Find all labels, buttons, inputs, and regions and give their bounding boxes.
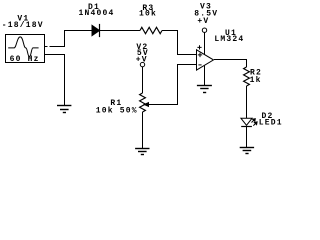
potentiometer R1 bbox=[140, 93, 149, 112]
wire V1 bottom to ground bbox=[45, 55, 65, 106]
wire D2 to ground bbox=[246, 127, 248, 148]
label D2 bbox=[262, 112, 274, 121]
label R3 bbox=[142, 4, 154, 13]
svg-text:10k 50%: 10k 50% bbox=[96, 107, 138, 116]
svg-text:+V: +V bbox=[136, 56, 148, 65]
wire V3 node to op-amp bbox=[204, 33, 206, 55]
LED D2 bbox=[241, 118, 257, 126]
svg-text:-18/18V: -18/18V bbox=[2, 21, 44, 30]
ground R1 bbox=[135, 149, 149, 155]
+V supply marker bbox=[197, 45, 201, 49]
value 1k bbox=[250, 76, 262, 85]
wire R1 bottom to ground bbox=[142, 112, 144, 148]
label D1 bbox=[88, 3, 100, 12]
value LED1 bbox=[259, 118, 283, 127]
svg-text:LM324: LM324 bbox=[214, 35, 244, 44]
op-amp U1 bbox=[197, 50, 214, 70]
ground V1 bbox=[57, 106, 71, 113]
label R2 bbox=[250, 69, 262, 78]
svg-text:10k: 10k bbox=[139, 10, 157, 19]
svg-text:1k: 1k bbox=[250, 76, 262, 85]
wire V1 top to D1 line bbox=[50, 31, 93, 47]
value LM324 bbox=[214, 35, 244, 44]
value 1N4004 bbox=[79, 9, 115, 18]
value 5V bbox=[137, 49, 149, 58]
label V2 bbox=[136, 43, 148, 52]
wire R1 wiper to -input bbox=[149, 65, 197, 105]
svg-text:1N4004: 1N4004 bbox=[79, 9, 115, 18]
wire output to R2 bbox=[214, 60, 247, 68]
label U1 bbox=[225, 29, 237, 38]
value -18/18V bbox=[2, 21, 44, 30]
label +V bbox=[197, 17, 209, 26]
AC source V1 bbox=[6, 35, 45, 63]
diode D1 bbox=[92, 24, 100, 37]
wire V2 to R1 bbox=[142, 67, 144, 93]
ground U1 bbox=[197, 86, 212, 93]
label V3 bbox=[200, 2, 212, 11]
value 10k 50% bbox=[96, 107, 138, 116]
resistor R3 bbox=[140, 27, 162, 33]
svg-text:LED1: LED1 bbox=[259, 118, 283, 127]
svg-text:+V: +V bbox=[197, 17, 209, 26]
wire R3 to +input bbox=[162, 31, 197, 55]
wire D1 to R3 bbox=[100, 30, 140, 32]
resistor R2 bbox=[244, 67, 250, 86]
node +V V3 bbox=[202, 28, 206, 32]
wire R2 to D2 bbox=[246, 86, 248, 118]
svg-text:60 Hz: 60 Hz bbox=[10, 55, 40, 64]
label V1 bbox=[17, 15, 29, 24]
value 60 Hz bbox=[10, 55, 40, 64]
wire V1 top stub bbox=[45, 46, 48, 48]
value 8.5V bbox=[194, 9, 218, 18]
node +V V2 bbox=[140, 62, 144, 66]
value 10k bbox=[139, 10, 157, 19]
wire op-amp V- to ground bbox=[204, 66, 206, 86]
ground D2 bbox=[240, 148, 254, 154]
label R1 bbox=[110, 99, 122, 108]
label +V bbox=[136, 56, 148, 65]
